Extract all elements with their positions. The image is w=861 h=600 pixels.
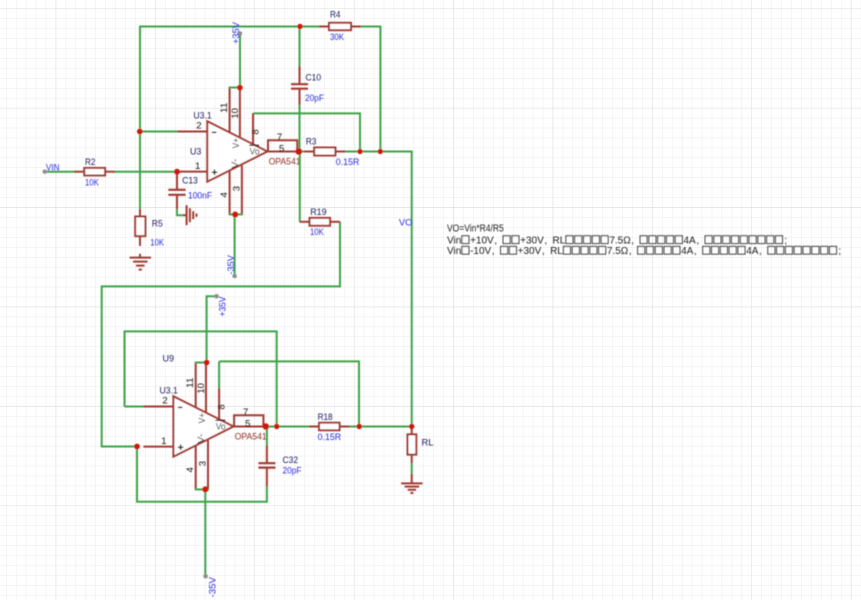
svg-text:2: 2: [196, 120, 201, 131]
svg-text:VO: VO: [399, 218, 413, 229]
svg-text:+10V: +10V: [470, 235, 494, 246]
svg-text:4: 4: [185, 467, 196, 473]
svg-text:+30V: +30V: [518, 246, 542, 257]
svg-text:7: 7: [277, 132, 282, 143]
svg-text:1: 1: [161, 436, 166, 447]
svg-text:8: 8: [217, 404, 228, 409]
svg-text:C32: C32: [283, 455, 299, 466]
svg-text:V-: V-: [196, 434, 207, 444]
svg-text:U3.1: U3.1: [160, 386, 178, 397]
svg-text:Vo: Vo: [250, 146, 260, 157]
svg-text:-35V: -35V: [208, 576, 219, 597]
svg-text:4A: 4A: [746, 246, 759, 257]
svg-text:3: 3: [198, 461, 209, 466]
svg-text:Vo: Vo: [216, 421, 226, 432]
svg-text:R2: R2: [85, 157, 96, 168]
svg-text:,: ,: [492, 246, 495, 257]
svg-text:5: 5: [279, 143, 284, 154]
svg-text:11: 11: [219, 103, 230, 114]
svg-text:,: ,: [759, 246, 762, 257]
svg-text:RL: RL: [550, 246, 563, 257]
svg-text:11: 11: [185, 378, 196, 389]
svg-text:R4: R4: [330, 10, 341, 21]
svg-text:Vin: Vin: [447, 235, 461, 246]
svg-text:,: ,: [696, 235, 699, 246]
svg-text:,: ,: [629, 246, 632, 257]
svg-text:4A: 4A: [683, 235, 696, 246]
svg-text:Vin: Vin: [447, 246, 461, 257]
svg-text:7: 7: [243, 407, 248, 418]
svg-text:R18: R18: [318, 412, 333, 423]
svg-text:RL: RL: [553, 235, 566, 246]
svg-text:R19: R19: [310, 207, 327, 218]
svg-text:OPA541: OPA541: [235, 432, 267, 443]
svg-text:V+: V+: [231, 138, 242, 149]
svg-text:,: ,: [494, 235, 497, 246]
svg-text:7.5Ω: 7.5Ω: [609, 235, 631, 246]
svg-text:3: 3: [232, 186, 243, 191]
svg-text:U3: U3: [190, 146, 201, 157]
svg-text:VO=Vin*R4/R5: VO=Vin*R4/R5: [447, 224, 504, 235]
svg-text:R5: R5: [152, 218, 163, 229]
svg-text:U9: U9: [163, 353, 175, 364]
svg-text:4A: 4A: [681, 246, 694, 257]
svg-text:V-: V-: [230, 159, 241, 169]
svg-text:OPA541: OPA541: [269, 157, 301, 168]
svg-text:5: 5: [245, 418, 250, 429]
svg-text:20pF: 20pF: [305, 93, 324, 104]
svg-text:100nF: 100nF: [188, 191, 212, 202]
svg-text:,: ,: [694, 246, 697, 257]
svg-text:R3: R3: [306, 137, 317, 148]
svg-text:2: 2: [162, 395, 167, 406]
svg-text:0.15R: 0.15R: [318, 432, 342, 443]
svg-text:1: 1: [195, 161, 200, 172]
svg-text:,: ,: [542, 246, 545, 257]
svg-text:-10V: -10V: [470, 246, 491, 257]
svg-text:-35V: -35V: [226, 255, 237, 275]
svg-text:30K: 30K: [330, 32, 344, 43]
svg-text:+35V: +35V: [217, 296, 228, 317]
svg-text:,: ,: [544, 235, 547, 246]
svg-text:,: ,: [631, 235, 634, 246]
svg-text:0.15R: 0.15R: [336, 157, 360, 168]
svg-text:10K: 10K: [150, 237, 164, 248]
svg-text:VIN: VIN: [46, 163, 60, 174]
svg-text:20pF: 20pF: [283, 465, 302, 476]
svg-text:10: 10: [196, 383, 207, 394]
svg-text:+35V: +35V: [231, 21, 242, 44]
svg-text:C13: C13: [182, 176, 198, 187]
svg-text:C10: C10: [306, 73, 322, 84]
svg-text:RL: RL: [422, 437, 435, 448]
svg-text:;: ;: [784, 235, 787, 246]
svg-text:8: 8: [251, 129, 262, 134]
svg-text:10: 10: [230, 108, 241, 119]
svg-text:V+: V+: [197, 413, 208, 424]
svg-text:U3.1: U3.1: [193, 111, 211, 122]
svg-text:10K: 10K: [310, 227, 324, 238]
svg-text:+30V: +30V: [520, 235, 544, 246]
svg-text:4: 4: [219, 192, 230, 198]
svg-text:;: ;: [838, 246, 841, 257]
svg-text:10K: 10K: [85, 177, 99, 188]
svg-text:7.5Ω: 7.5Ω: [607, 246, 629, 257]
